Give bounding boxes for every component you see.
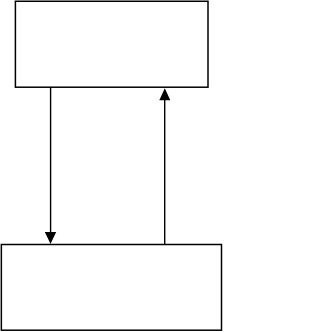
node bottom box [1, 245, 221, 331]
node top box [15, 1, 208, 87]
arrowhead up [159, 88, 170, 100]
wire down arrow stem [50, 87, 52, 233]
arrowhead down [45, 232, 56, 244]
wire up arrow stem [164, 99, 166, 245]
